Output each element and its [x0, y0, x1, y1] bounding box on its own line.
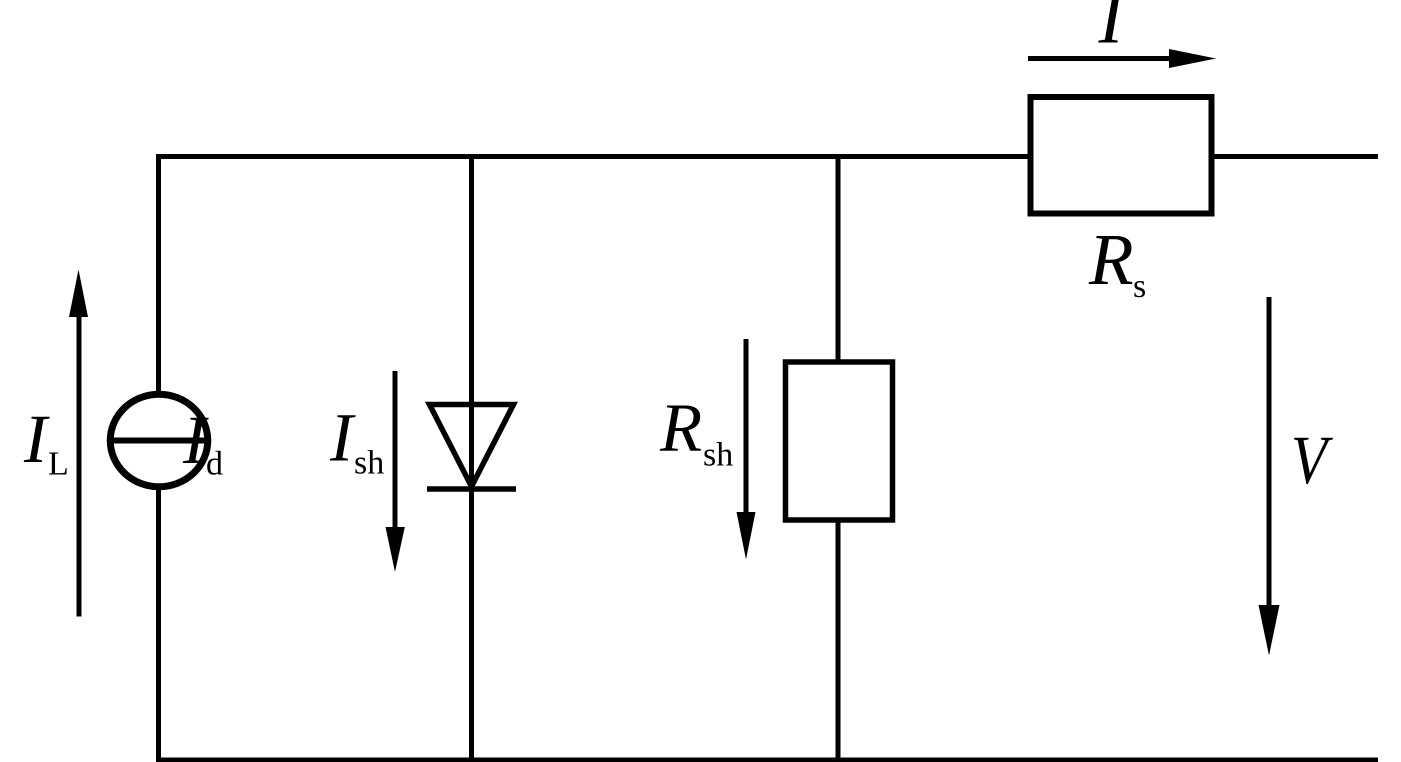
- wire: shunt resistor branch: [836, 154, 841, 762]
- diode D (triangle anode): [430, 405, 514, 487]
- wire: top bus: [156, 154, 1378, 159]
- svg-text:V: V: [1291, 422, 1333, 498]
- svg-text:R: R: [1088, 219, 1134, 300]
- label Rs: [1088, 219, 1146, 305]
- label Rsh: [659, 390, 733, 474]
- label Id: [182, 402, 223, 483]
- svg-text:s: s: [1133, 268, 1146, 305]
- svg-text:L: L: [48, 446, 69, 483]
- current arrow I (right): [1028, 49, 1216, 68]
- current arrow through Rsh (down): [737, 339, 756, 560]
- label IL: [23, 401, 69, 483]
- resistor Rsh (body): [786, 362, 893, 520]
- current arrow Ish (down): [386, 371, 405, 572]
- svg-text:d: d: [206, 446, 223, 483]
- resistor Rs (body): [1031, 97, 1212, 214]
- wire: diode branch: [469, 154, 474, 762]
- voltage arrow V (down): [1259, 297, 1280, 656]
- wire: left branch (current source branch): [156, 154, 161, 762]
- diode D (cathode bar): [427, 486, 516, 492]
- current source IL (circle): [110, 394, 208, 487]
- svg-text:I: I: [329, 400, 356, 476]
- svg-text:I: I: [1098, 0, 1127, 60]
- svg-text:I: I: [182, 402, 209, 478]
- svg-text:I: I: [23, 401, 50, 477]
- svg-text:sh: sh: [703, 437, 733, 474]
- svg-text:sh: sh: [354, 445, 384, 482]
- current arrow IL (up): [69, 270, 88, 617]
- label Ish: [329, 400, 384, 482]
- wire: bottom bus: [156, 758, 1378, 762]
- svg-text:R: R: [659, 390, 702, 466]
